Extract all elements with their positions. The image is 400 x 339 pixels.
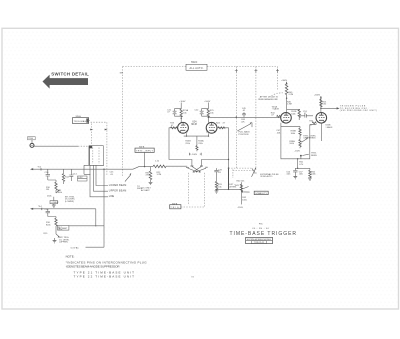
loop interior pot R58A (299, 139, 301, 146)
cluster 1: level box (50, 201, 58, 204)
svg-text:-150V: -150V (237, 207, 243, 209)
svg-text:1.8M: 1.8M (287, 104, 292, 106)
svg-text:ALL AUTO.: ALL AUTO. (190, 67, 204, 70)
ground (293, 177, 297, 179)
wafer bottom extension wire (84, 164, 104, 166)
cathode center drop resistor (196, 136, 198, 145)
svg-text:(UPPER): (UPPER) (59, 242, 68, 244)
wiper arrow on stubs (125, 175, 131, 182)
SW A box inner mark (86, 118, 88, 122)
switch gang dashed line (x=236) (235, 67, 237, 169)
svg-text:(V45 PIN2-RUNS OSC UNIT): (V45 PIN2-RUNS OSC UNIT) (340, 110, 377, 112)
wire to riser (69, 225, 104, 227)
cluster 2: resistor R16 (48, 217, 56, 219)
cathode network drop (297, 159, 299, 169)
cluster 1: resistor R10 (48, 180, 56, 182)
tube V45 section B (316, 113, 327, 124)
svg-text:LOWER BEAM: LOWER BEAM (109, 184, 127, 187)
svg-text:UPPER BEAM: UPPER BEAM (109, 190, 127, 193)
atten vertical bus (228, 168, 230, 189)
terminal tick (41, 208, 43, 210)
svg-text:TRIG.-INPUT: TRIG.-INPUT (136, 151, 154, 153)
svg-text:RUN DOWN-HOLD OFF: RUN DOWN-HOLD OFF (258, 99, 278, 101)
svg-text:TYPE 21-22: TYPE 21-22 (254, 242, 265, 244)
svg-text:+300V: +300V (314, 94, 321, 96)
trigger output wire (321, 107, 337, 109)
terminal tick (40, 168, 42, 170)
ground (149, 182, 153, 184)
net stub UPPER BEAM (94, 165, 109, 191)
svg-text:†DENOTES BEAM-ANODE SUPPRESSOR: †DENOTES BEAM-ANODE SUPPRESSOR (66, 264, 121, 268)
wire B drop to lower bus (95, 209, 97, 226)
SW A wiper arrowheads (90, 129, 107, 131)
V45B cathode stub (320, 123, 322, 141)
atten bottom wire (215, 188, 241, 190)
title block box (246, 237, 273, 243)
V45 loop (281, 123, 317, 159)
V24 feedback loop left (169, 128, 192, 166)
gang contact mark (235, 69, 238, 73)
center resistor R51 (287, 109, 300, 111)
svg-text:TRIG.: TRIG. (170, 207, 180, 209)
switch gang dashed line (x=277.5) (277, 67, 279, 91)
resistor R55 (320, 99, 322, 107)
svg-text:6.3 V AC: 6.3 V AC (71, 246, 80, 249)
capacitor C51 (299, 114, 313, 118)
cluster 1: diode leg (69, 169, 73, 181)
resistor R21 (180, 109, 182, 117)
V24 loop right / grid return drop (202, 128, 229, 190)
capacitor C21 (parallel) (173, 109, 182, 117)
svg-text:R40 10k: R40 10k (237, 181, 246, 183)
slope switch contacts (186, 166, 203, 168)
svg-text:6.3V: 6.3V (78, 177, 83, 179)
node (181, 118, 182, 119)
pot wiper trig level centering (302, 139, 307, 142)
svg-text:AC FAST: AC FAST (141, 189, 150, 192)
svg-text:TRIG.MAG: TRIG.MAG (74, 120, 87, 123)
svg-text:SCOPE-MOBILE MODEL: SCOPE-MOBILE MODEL (247, 239, 272, 241)
wire SW B box down (144, 152, 146, 166)
no-auto dashed wire (229, 167, 252, 169)
wire input line B (31, 208, 96, 210)
cathode bottom rail (295, 167, 310, 169)
stability pot wiper (243, 191, 249, 193)
node trigger out (320, 108, 321, 109)
trigger input jack (30, 143, 34, 147)
wire jack to wafer (34, 145, 78, 147)
switch detail arrow (43, 75, 89, 89)
svg-text:AFTER DELAY IS: AFTER DELAY IS (260, 95, 279, 98)
wafer corner mark (89, 146, 92, 149)
svg-text:AC FAST: AC FAST (59, 227, 68, 230)
resistor R40 (240, 184, 242, 191)
svg-text:LINE: LINE (109, 195, 115, 198)
svg-text:TYPE 22 TIME-BASE UNIT: TYPE 22 TIME-BASE UNIT (74, 275, 135, 279)
node (300, 155, 302, 157)
cluster 2: sw box with output wire (58, 226, 69, 231)
wire loop to divider chain (281, 126, 300, 128)
svg-text:6DJ8: 6DJ8 (191, 123, 197, 126)
tube V24 section A (178, 122, 189, 133)
switch gang dashed line (x=255.9) (255, 67, 257, 168)
svg-text:IN NO AUTO.: IN NO AUTO. (260, 175, 273, 178)
resistor R30 to ground (AC coupling leg) (150, 167, 152, 171)
V45A plate feed (286, 82, 288, 84)
switch wafer rectangle (89, 146, 103, 166)
cluster 2: capacitor C16 (46, 209, 50, 217)
SW A dashed link (89, 121, 107, 176)
cluster 2: ground (54, 238, 56, 241)
ganged-switch dashed bus SW D (right segment) (207, 66, 278, 68)
cal switch arrow (237, 123, 252, 131)
ganged-switch dashed bus SW D (left segment) (123, 66, 187, 68)
cluster 1: pot wiper (56, 190, 60, 193)
switch gang dashed line (x=122.5) (122, 67, 124, 178)
resistor R24 grid stopper (218, 127, 225, 129)
cluster 1: second leg resistor (63, 169, 65, 173)
capacitor C22 (parallel) (200, 109, 209, 117)
stability wire (240, 182, 242, 204)
capacitor C45 stub (242, 112, 246, 117)
svg-text:FIG.: FIG. (259, 224, 263, 226)
bypass leg 2 (309, 168, 311, 170)
V24 plate feed left (180, 103, 182, 110)
ground (215, 191, 219, 193)
ground (308, 178, 312, 180)
node on V45A feed (286, 98, 287, 99)
SW B gang dashed drops (188, 173, 204, 207)
gang contact mark (254, 69, 257, 73)
V24 plate feed right (207, 103, 209, 110)
svg-text:TRIG: TRIG (28, 138, 33, 140)
line tap box (84, 165, 90, 174)
node at rail (228, 159, 229, 160)
svg-text:SW D: SW D (191, 61, 198, 64)
cluster 1: capacitor C10 (46, 169, 50, 180)
bypass leg 1 (293, 168, 297, 176)
no-auto switch arrow (252, 168, 257, 173)
svg-text:SENS.: SENS. (311, 155, 318, 157)
net stub LOWER BEAM (96, 165, 108, 185)
loop interior resistor R58B (299, 128, 301, 135)
hold off dashed pointer (272, 93, 284, 96)
node junction (144, 166, 145, 167)
cluster 2: pot wiper (56, 230, 59, 237)
switch SW D box (186, 64, 207, 70)
node slope switch (196, 171, 198, 173)
svg-text:SW: SW (120, 73, 123, 75)
stability switch arrow from atten (241, 187, 248, 190)
svg-text:+100V: +100V (204, 101, 211, 103)
coupling node to V45 grid wire (208, 116, 281, 118)
V45B plate feed (320, 96, 322, 113)
svg-text:SW B: SW B (137, 188, 143, 190)
stability box (254, 191, 268, 194)
ext atten capacitor C28 (214, 168, 218, 181)
wafer inner contacts (93, 148, 99, 165)
input arrow B (30, 208, 33, 210)
tube V45 section A (281, 113, 292, 124)
resistor R25 (207, 109, 209, 117)
svg-text:1M: 1M (46, 189, 49, 191)
svg-text:2.2M: 2.2M (289, 94, 294, 96)
gang contact mark (276, 69, 279, 73)
svg-text:1.2M: 1.2M (157, 174, 162, 176)
svg-text:NOTE:: NOTE: (66, 255, 75, 259)
svg-text:STABILITY: STABILITY (255, 192, 267, 195)
tube V24 section B (206, 122, 217, 133)
wire input line A (31, 167, 153, 170)
svg-text:LOWER: LOWER (51, 202, 59, 204)
svg-text:TIME-BASE TRIGGER: TIME-BASE TRIGGER (230, 231, 298, 237)
svg-text:-150V: -150V (294, 151, 300, 153)
svg-text:(LOWER): (LOWER) (65, 201, 74, 203)
svg-text:SWITCH DETAIL: SWITCH DETAIL (51, 71, 89, 76)
resistor R38 (215, 181, 217, 188)
trigger input jack label box (28, 137, 36, 140)
resistor R22 (series) (153, 165, 166, 168)
svg-text:CENTERING: CENTERING (303, 138, 316, 140)
svg-text:-100V: -100V (192, 154, 198, 156)
cluster 1: ground (52, 205, 56, 207)
atten dashed box (233, 169, 253, 178)
slope switch crossing diagonals (188, 166, 207, 172)
input arrow A (30, 168, 33, 170)
svg-text:+100V: +100V (179, 101, 186, 103)
atten switch arrow (252, 169, 256, 177)
svg-text:POSITION: POSITION (239, 134, 249, 136)
switch SW A box (73, 118, 89, 124)
resistor R46 (285, 84, 288, 95)
net stub LINE (90, 165, 108, 197)
cathode join bar (184, 133, 209, 136)
wire to slope switch (166, 165, 187, 167)
